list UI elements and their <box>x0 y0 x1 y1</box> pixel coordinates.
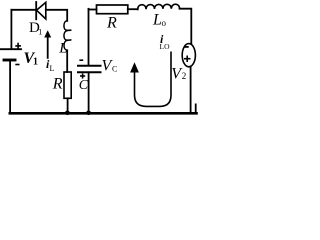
svg-text:C: C <box>79 78 89 93</box>
svg-text:R: R <box>106 15 117 32</box>
svg-text:L: L <box>58 40 67 56</box>
svg-text:LO: LO <box>160 42 171 51</box>
svg-text:o: o <box>162 18 167 28</box>
svg-text:L: L <box>50 64 55 73</box>
svg-text:C: C <box>112 65 117 74</box>
svg-text:2: 2 <box>182 71 187 81</box>
svg-text:R: R <box>52 76 63 93</box>
svg-text:1: 1 <box>33 57 38 68</box>
svg-text:1: 1 <box>38 27 42 36</box>
svg-text:L: L <box>152 12 162 29</box>
